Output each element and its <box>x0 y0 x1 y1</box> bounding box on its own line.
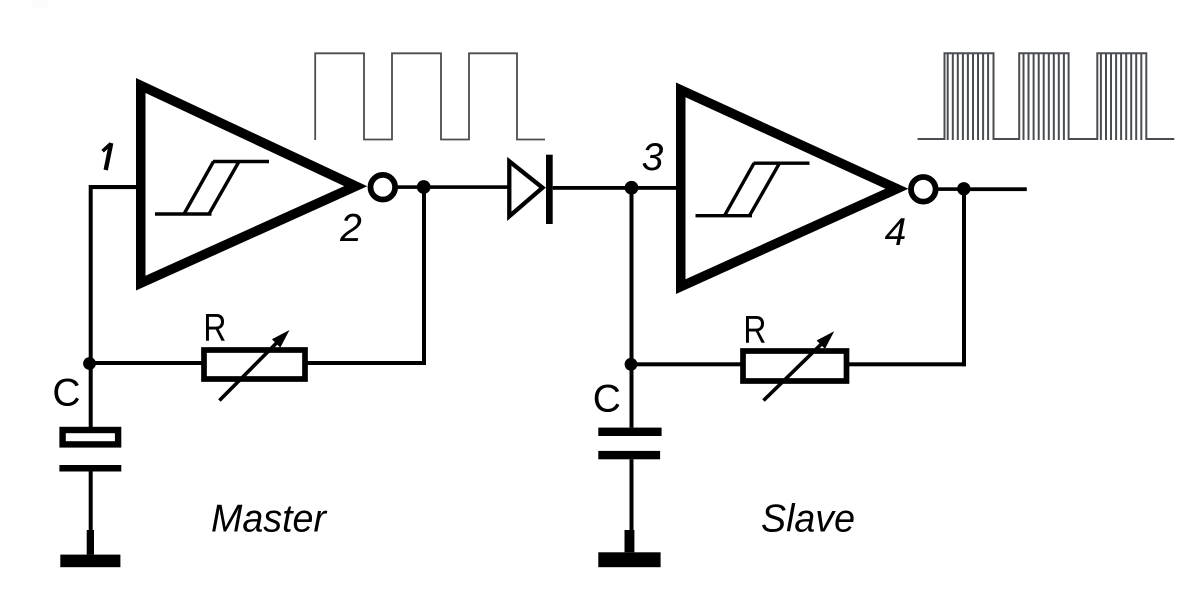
node B junction dot <box>957 182 970 195</box>
svg-text:R: R <box>203 307 226 350</box>
wire node A to diode <box>424 185 510 189</box>
artifact mark top-left <box>32 0 48 8</box>
node A junction dot <box>417 180 431 194</box>
wire bubble to node A <box>398 185 428 189</box>
svg-text:Slave: Slave <box>761 497 855 540</box>
wire C2 to ground <box>630 459 634 530</box>
capacitor C1 <box>59 430 121 472</box>
ground (master) <box>60 530 120 567</box>
wire C node to R1 <box>90 361 204 365</box>
wire R2 to vertical <box>846 362 966 366</box>
resistor R1 (variable) <box>204 330 305 401</box>
node C-left junction dot <box>83 357 96 370</box>
node C-right junction dot <box>625 358 638 371</box>
ground (slave) <box>598 530 660 567</box>
pin label 1 <box>103 143 112 170</box>
wire output tail <box>964 187 1027 191</box>
node 3 junction dot <box>625 181 639 195</box>
wire node A down to resistor R1 level <box>422 187 426 365</box>
wire node to R2 <box>631 362 743 366</box>
wire node to C1 <box>89 364 93 429</box>
wire C1 to ground <box>89 472 93 532</box>
svg-text:3: 3 <box>642 136 664 179</box>
resistor R2 (variable) <box>743 331 847 400</box>
wire bubble U2 to node B <box>938 187 968 191</box>
diode D1 <box>509 155 552 224</box>
waveform burst (slave output) <box>918 53 1175 140</box>
wire input node1 horizontal <box>89 185 138 189</box>
svg-text:C: C <box>593 377 621 420</box>
output bubble U1 <box>371 175 396 200</box>
svg-text:Master: Master <box>211 498 328 541</box>
hysteresis symbol U2 <box>696 163 810 216</box>
output bubble U2 <box>911 177 936 202</box>
svg-text:2: 2 <box>339 207 362 250</box>
wire node to C2 <box>630 364 634 427</box>
svg-text:R: R <box>743 309 766 352</box>
wire node 3 down to resistor R2 level <box>630 188 634 366</box>
wire input vertical down to C node <box>89 185 93 365</box>
svg-text:4: 4 <box>885 211 907 254</box>
capacitor C2 <box>598 428 661 460</box>
op-amp U2 schmitt inverter (slave) <box>676 83 908 295</box>
wire R1 right to vertical <box>305 361 426 365</box>
wire node B down to R2 level <box>962 189 966 366</box>
wire diode to node 3 <box>553 186 633 190</box>
svg-text:C: C <box>52 372 80 415</box>
waveform square wave (master output) <box>315 53 545 140</box>
wire node 3 to U2 <box>632 186 677 190</box>
op-amp U1 schmitt inverter (master) <box>136 78 367 291</box>
hysteresis symbol U1 <box>155 162 269 215</box>
